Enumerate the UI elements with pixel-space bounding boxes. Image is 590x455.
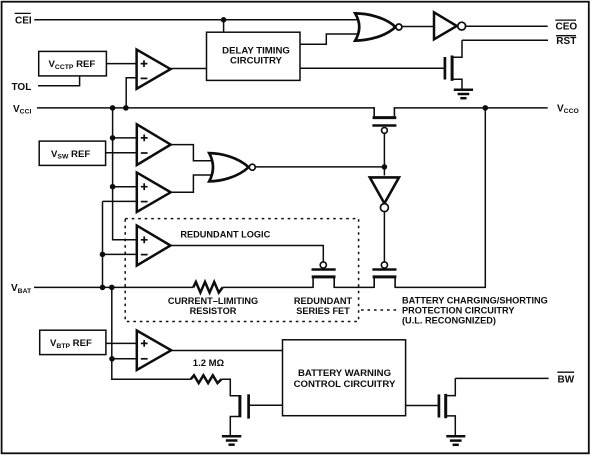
transistor Q0 (main switch P-FET): [372, 107, 396, 133]
op-amp U1 comparator: [137, 50, 171, 89]
wire CEI tap down to delay box: [223, 20, 225, 32]
wire NOR1 output to inverter: [402, 26, 434, 28]
box VCCTP REF: [39, 51, 107, 76]
wire delay box to NOR1 bottom input: [300, 34, 363, 44]
wire U3 output to NOR2 bottom input: [171, 175, 217, 192]
wire U5 output to battery warning box: [171, 350, 282, 352]
node dot VCCI U1 branch: [123, 105, 129, 111]
ground for Q5: [454, 90, 473, 98]
wire junction down to inverter U7: [383, 167, 385, 176]
node dot bus B at U4 -: [100, 252, 106, 258]
wire U7 output down to Q2 gate: [383, 212, 385, 262]
svg-text:CONTROL CIRCUITRY: CONTROL CIRCUITRY: [294, 379, 396, 390]
svg-text:CIRCUITRY: CIRCUITRY: [230, 55, 282, 66]
node dot VBAT bus C: [109, 285, 115, 291]
svg-text:REDUNDANT LOGIC: REDUNDANT LOGIC: [180, 230, 270, 240]
gate NOR2: [209, 153, 255, 181]
op-amp U5 comparator: [137, 331, 171, 371]
wire VBTP REF to U5 +: [106, 342, 137, 344]
svg-text:VBTP REF: VBTP REF: [50, 338, 92, 350]
node dot VCCO charge branch: [483, 105, 489, 111]
wire VSW REF to U2 -: [106, 152, 137, 154]
wire box to Q4 gate: [406, 405, 438, 407]
wire VCCI bus A down: [113, 108, 137, 240]
wire RST line: [462, 39, 548, 41]
wire VCCO line right of Q0: [394, 107, 547, 109]
gate inverter U6: [434, 12, 466, 39]
dashed redundant box: [125, 219, 358, 322]
label BATTERY CHARGING/SHORTING PROTECTION CIRCUITRY: [402, 296, 548, 326]
svg-text:CEO: CEO: [556, 22, 578, 33]
svg-text:CURRENT–LIMITING: CURRENT–LIMITING: [168, 296, 258, 306]
op-amp U2 comparator: [137, 124, 171, 165]
box BATTERY WARNING CONTROL CIRCUITRY: [283, 340, 406, 416]
wire VCCI line left of Q0: [37, 107, 374, 109]
node junction dot on CEI: [221, 17, 227, 23]
wire inverter output to CEO: [466, 25, 548, 27]
wire bus C to U5 -: [112, 358, 137, 360]
dashed leader to protection text: [361, 309, 398, 311]
transistor Q3 (battery warning FET): [230, 394, 282, 436]
ground for Q4: [446, 436, 465, 445]
wire bus B down to VBAT: [102, 201, 104, 287]
wire NOR2 output to gate junction: [255, 166, 384, 168]
wire R1 to Q1: [223, 286, 314, 288]
wire U1 output to delay box: [171, 68, 207, 70]
wire BW line: [455, 377, 548, 379]
resistor R1 current limiting: [193, 282, 222, 293]
svg-text:(U.L. RECONGNIZED): (U.L. RECONGNIZED): [402, 316, 496, 326]
node dot bus C at U5 -: [109, 356, 115, 362]
box DELAY TIMING CIRCUITRY: [207, 32, 301, 80]
svg-text:TOL: TOL: [12, 82, 32, 93]
svg-text:BATTERY CHARGING/SHORTING: BATTERY CHARGING/SHORTING: [402, 296, 548, 306]
wire bus A to U2 +: [113, 137, 137, 139]
label CURRENT-LIMITING RESISTOR: [168, 296, 258, 316]
wire R2 to Q3 drain: [222, 379, 239, 396]
wire Q1 to Q2: [334, 286, 374, 288]
wire U2 output to NOR2 top input: [171, 145, 217, 161]
node CEO label: [555, 20, 577, 32]
wire Q2 to VCCO riser: [395, 108, 485, 288]
transistor Q5 (RST pulldown): [445, 40, 462, 89]
svg-text:1.2 MΩ: 1.2 MΩ: [193, 358, 225, 369]
box VSW REF: [39, 141, 105, 165]
transistor Q4 (BW output FET): [439, 378, 455, 435]
wire Q0 gate down to junction: [383, 133, 385, 167]
node dot VBAT bus B: [100, 285, 106, 291]
svg-text:RST: RST: [556, 36, 576, 47]
node dot bus A at U3 +: [110, 184, 116, 190]
node CEI label: [15, 13, 32, 26]
wire VCCTP REF to U1 +: [106, 63, 137, 65]
wire U4 output to Q1 gate: [171, 246, 324, 263]
node RST label: [556, 36, 576, 47]
op-amp U3 comparator: [137, 173, 171, 212]
node dot VCCI bus A: [110, 105, 116, 111]
transistor Q2 (charge FET): [372, 262, 396, 288]
svg-text:BW: BW: [558, 374, 575, 385]
wire bus A to U3 +: [113, 186, 137, 188]
svg-text:VSW REF: VSW REF: [51, 149, 90, 161]
node BW label: [557, 372, 574, 385]
svg-text:REDUNDANT: REDUNDANT: [294, 296, 353, 306]
wire TOL to VCCTP REF box: [38, 76, 80, 86]
svg-text:CEI: CEI: [15, 16, 32, 27]
node dot bus A at U2 +: [110, 135, 116, 141]
label REDUNDANT SERIES FET: [294, 296, 353, 316]
wire VBAT bus C down: [112, 287, 191, 379]
gate NOR1: [355, 13, 402, 40]
gate inverter U7 (down): [370, 177, 399, 211]
op-amp U4 comparator (redundant): [137, 226, 171, 266]
box VBTP REF: [40, 330, 106, 354]
svg-text:SERIES FET: SERIES FET: [296, 306, 350, 316]
transistor Q1 (redundant series FET): [312, 262, 336, 288]
svg-text:RESISTOR: RESISTOR: [190, 306, 237, 316]
svg-text:BATTERY WARNING: BATTERY WARNING: [298, 368, 391, 379]
ground for Q3: [222, 436, 241, 445]
node dot gate junction: [382, 164, 388, 170]
wire U1 - input down to VCCI: [126, 78, 137, 108]
svg-text:PROTECTION CIRCUITRY: PROTECTION CIRCUITRY: [402, 305, 514, 315]
wire bus B to U4 -: [103, 253, 138, 255]
wire VBAT to resistor R1: [34, 286, 193, 288]
wire U3 - to bus B: [103, 200, 138, 202]
resistor R2 1.2 Mohm: [191, 375, 222, 383]
wire CEI to NOR1 top input: [34, 19, 363, 21]
wire delay box to Q5 gate: [300, 67, 444, 69]
